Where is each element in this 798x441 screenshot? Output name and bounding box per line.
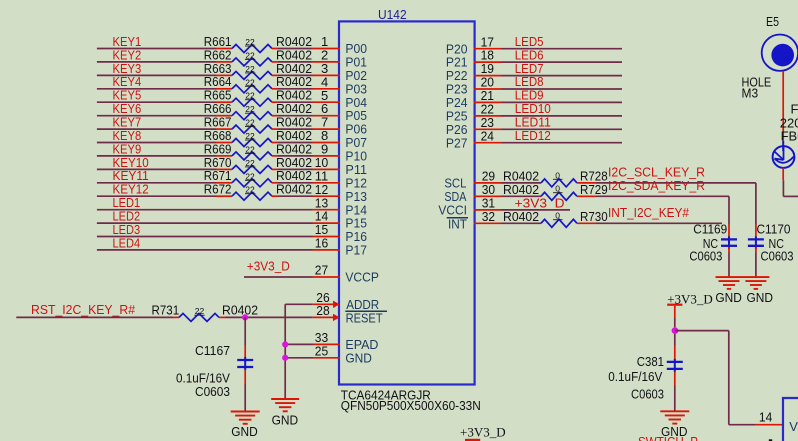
pin 15 (P16) (313, 222, 341, 237)
pin name P27 (446, 135, 468, 150)
pin name P17 (345, 243, 367, 258)
svg-text:22: 22 (245, 50, 255, 60)
pin name INT with overline (447, 216, 468, 231)
wire net KEY1 (97, 34, 216, 49)
wire +3V3_D to pin 14 (675, 331, 783, 425)
pin name P23 (446, 82, 468, 97)
svg-text:VCCI: VCCI (438, 203, 467, 218)
ground symbol (C1169) (715, 277, 742, 305)
svg-text:R672: R672 (204, 182, 232, 197)
resistor R730 0 R0402 (501, 209, 608, 227)
pin name P03 (345, 81, 367, 96)
resistor R669 22 R0402 (204, 141, 312, 160)
svg-text:0: 0 (555, 170, 560, 180)
svg-text:R731: R731 (152, 302, 180, 317)
wire net KEY11 (97, 168, 216, 183)
pin 6 (P05) (313, 101, 341, 116)
svg-text:P17: P17 (345, 243, 367, 258)
power port +3V3_D (bottom) (460, 425, 506, 441)
IC footprint QFN50P500X500X60-33N (341, 398, 481, 413)
junction at +3V3_D branch (672, 327, 679, 334)
svg-text:22: 22 (195, 306, 205, 316)
svg-text:14: 14 (759, 409, 772, 424)
svg-text:C1170: C1170 (757, 222, 791, 237)
IC U142 body (TCA6424ARGJR) (339, 21, 475, 384)
wire R672 to pin 12 (278, 195, 313, 197)
svg-text:FB06: FB06 (781, 128, 798, 143)
svg-text:GND: GND (272, 412, 299, 427)
wire net LED3 (97, 222, 313, 237)
wire net LED2 (97, 209, 313, 224)
resistor R671 22 R0402 (204, 168, 312, 187)
pin name P13 (345, 189, 367, 204)
pin name P04 (345, 95, 367, 110)
svg-text:GND: GND (231, 424, 258, 439)
pin name P01 (345, 55, 367, 70)
pin name P06 (345, 122, 367, 137)
svg-text:C0603: C0603 (689, 248, 722, 263)
svg-text:U142: U142 (378, 7, 407, 22)
wire net LED6 (501, 47, 622, 62)
pin name P02 (345, 68, 367, 83)
svg-text:SWTICH_P: SWTICH_P (638, 434, 698, 441)
svg-text:QFN50P500X500X60-33N: QFN50P500X500X60-33N (341, 398, 481, 413)
pin number sliver (clipped) (769, 439, 772, 441)
svg-text:22: 22 (245, 144, 255, 154)
wire net LED7 (501, 61, 622, 76)
svg-text:R0402: R0402 (276, 182, 312, 197)
junction at EPAD wire (282, 341, 288, 347)
wire R670 to pin 10 (278, 168, 313, 170)
svg-text:INT: INT (448, 216, 467, 231)
svg-text:VCCP: VCCP (345, 270, 379, 285)
wire net LED5 (501, 34, 622, 49)
pin 25 (GND) (313, 343, 340, 358)
pin 12 (P13) (313, 182, 341, 197)
resistor R672 22 R0402 (204, 182, 312, 201)
pin 30 (SDA) (474, 182, 501, 197)
svg-text:C381: C381 (637, 354, 664, 369)
wire net KEY6 (97, 101, 216, 116)
net label SWTICH_P (clipped) (638, 434, 698, 441)
wire net INT_I2C_KEY# (596, 205, 722, 223)
mounting hole E5 HOLE M3 (742, 14, 798, 101)
svg-text:E5: E5 (766, 14, 779, 29)
pin 5 (P04) (313, 88, 341, 103)
wire net LED10 (501, 101, 622, 116)
pin name VCCI (438, 203, 467, 218)
pin name P10 (345, 149, 367, 164)
ground symbol (ADDR/EPAD/GND bus) (271, 399, 299, 427)
IC value TCA6424ARGJR (341, 387, 431, 402)
ground symbol (C1170) (742, 277, 773, 305)
wire net +3V3_D (pin 27) (244, 258, 313, 277)
capacitor C1170 NC C0603 (748, 222, 794, 278)
pin 29 (SCL) (474, 169, 501, 184)
svg-text:C1169: C1169 (693, 222, 727, 237)
resistor R662 22 R0402 (204, 47, 312, 66)
pin 17 (P20) (474, 34, 501, 49)
svg-text:VC: VC (789, 419, 798, 434)
wire R664 to pin 4 (278, 88, 313, 90)
wire net KEY7 (97, 115, 216, 130)
pin 31 (VCCI) (474, 196, 501, 211)
pin 9 (P10) (313, 142, 341, 157)
pin 11 (P12) (313, 168, 341, 183)
pin 14 (P15) (313, 209, 341, 224)
wire R661 to pin 1 (278, 48, 313, 50)
wire net KEY5 (97, 88, 216, 103)
pin name P00 (345, 41, 367, 56)
pin 14 (right IC) (759, 409, 772, 424)
pin 32 (INT) (474, 209, 501, 224)
pin name P11 (345, 162, 367, 177)
pin 19 (P22) (474, 61, 501, 76)
pin 18 (P21) (474, 48, 501, 63)
pin name SDA (444, 189, 466, 204)
pin name P26 (446, 122, 468, 137)
wire net +3V3_D (pin 31) (501, 196, 570, 211)
svg-text:FB36: FB36 (791, 102, 798, 117)
pin name P21 (446, 55, 468, 70)
pin 13 (P14) (313, 195, 341, 210)
svg-text:0: 0 (555, 211, 560, 221)
svg-text:GND: GND (715, 290, 742, 305)
svg-text:R730: R730 (580, 209, 608, 224)
svg-text:GND: GND (345, 350, 372, 365)
wire net LED11 (501, 115, 622, 130)
resistor R729 0 R0402 (501, 182, 608, 200)
pin 28 (RESET) (313, 303, 340, 321)
wire net KEY4 (97, 74, 216, 89)
resistor R731 22 R0402 (152, 302, 259, 321)
pin 22 (P25) (474, 102, 501, 117)
svg-text:RESET: RESET (346, 310, 383, 325)
pin name P24 (446, 95, 468, 110)
resistor R663 22 R0402 (204, 61, 312, 80)
wire R663 to pin 3 (278, 74, 313, 76)
pin name EPAD (345, 337, 378, 352)
wire net KEY10 (97, 155, 216, 170)
junction at R731 / C1167 (242, 314, 248, 320)
svg-text:32: 32 (482, 209, 495, 224)
svg-text:22: 22 (245, 171, 255, 181)
wire R668 to pin 8 (278, 142, 313, 144)
capacitor C1169 NC C0603 (689, 222, 737, 278)
svg-text:P27: P27 (446, 135, 468, 150)
wire net LED4 (97, 235, 313, 250)
svg-text:RST_I2C_KEY_R#: RST_I2C_KEY_R# (31, 302, 136, 317)
resistor R664 22 R0402 (204, 74, 312, 93)
resistor R668 22 R0402 (204, 128, 312, 147)
wire net LED12 (501, 128, 622, 143)
svg-text:22: 22 (245, 185, 255, 195)
wire net RST_I2C_KEY_R# (16, 302, 173, 317)
svg-text:M3: M3 (742, 86, 759, 101)
svg-text:22: 22 (245, 77, 255, 87)
resistor R667 22 R0402 (204, 115, 312, 134)
svg-text:0.1uF/16V: 0.1uF/16V (608, 369, 662, 384)
wire net KEY2 (97, 47, 216, 62)
svg-text:R729: R729 (580, 182, 608, 197)
pin name SCL (444, 176, 466, 191)
pin 2 (P01) (313, 48, 341, 63)
resistor R666 22 R0402 (204, 101, 312, 120)
svg-text:INT_I2C_KEY#: INT_I2C_KEY# (608, 205, 690, 220)
resistor R670 22 R0402 (204, 155, 312, 174)
pin name P15 (345, 216, 367, 231)
svg-text:GND: GND (747, 290, 774, 305)
wire R669 to pin 9 (278, 155, 313, 157)
pin 20 (P23) (474, 75, 501, 90)
junction at GND pin wire (282, 355, 288, 361)
wire R731 to pin 28 (225, 316, 313, 318)
pin name VCCP (345, 270, 379, 285)
svg-text:28: 28 (316, 303, 329, 318)
svg-text:+3V3_D: +3V3_D (247, 258, 290, 273)
ferrite bead FB (designator/value/footprint clipped) (773, 102, 798, 168)
power port +3V3_D (667, 291, 713, 327)
svg-text:LED4: LED4 (113, 235, 141, 250)
pin 8 (P07) (313, 128, 341, 143)
pin 4 (P03) (313, 74, 341, 89)
svg-text:22: 22 (245, 104, 255, 114)
svg-text:16: 16 (315, 236, 328, 251)
pin name ADDR (346, 297, 379, 312)
wire net KEY8 (97, 128, 216, 143)
svg-text:25: 25 (315, 343, 328, 358)
svg-text:0: 0 (555, 184, 560, 194)
pin 16 (P17) (313, 236, 341, 251)
pin name RESET with overline (345, 310, 387, 325)
pin name VC (clipped) (789, 419, 798, 434)
svg-text:C0603: C0603 (631, 386, 664, 401)
wire ferrite down and right (clipped) (783, 168, 798, 197)
pin 24 (P27) (474, 128, 501, 143)
IC fragment right edge body (783, 398, 798, 441)
pin 1 (P00) (313, 34, 341, 49)
svg-text:C0603: C0603 (195, 384, 230, 399)
wire R671 to pin 11 (278, 182, 313, 184)
pin 3 (P02) (313, 61, 341, 76)
pin name P22 (446, 68, 468, 83)
wire net KEY9 (97, 141, 216, 156)
svg-text:27: 27 (315, 263, 328, 278)
resistor R728 0 R0402 (501, 169, 608, 187)
resistor R665 22 R0402 (204, 88, 312, 107)
svg-text:22: 22 (245, 91, 255, 101)
ground symbol (C381) (660, 411, 689, 439)
svg-text:22: 22 (245, 37, 255, 47)
svg-text:C1167: C1167 (195, 343, 230, 358)
pin name P14 (345, 202, 367, 217)
svg-text:22: 22 (245, 64, 255, 74)
pin 7 (P06) (313, 115, 341, 130)
wire R666 to pin 6 (278, 115, 313, 117)
svg-text:LED12: LED12 (515, 128, 551, 143)
wire net LED9 (501, 88, 622, 103)
ground symbol (C1167) (231, 412, 260, 440)
wire net KEY3 (97, 61, 216, 76)
wire ADDR-EPAD-GND vertical bus (285, 304, 313, 399)
pin name P12 (345, 175, 367, 190)
pin name P05 (345, 108, 367, 123)
wire net LED8 (501, 74, 622, 89)
svg-text:24: 24 (481, 128, 494, 143)
pin 26 (ADDR) (313, 290, 340, 308)
svg-text:+3V3_D: +3V3_D (460, 425, 506, 440)
pin name P16 (345, 229, 367, 244)
pin 27 (VCCP) (313, 263, 341, 278)
capacitor C381 0.1uF/16V C0603 (608, 334, 683, 412)
capacitor C1167 0.1uF/16V C0603 (176, 317, 253, 411)
pin name GND (345, 350, 372, 365)
wire R665 to pin 5 (278, 101, 313, 103)
wire net I2C_SCL_KEY_R (596, 165, 756, 225)
wire R667 to pin 7 (278, 128, 313, 130)
svg-text:I2C_SDA_KEY_R: I2C_SDA_KEY_R (608, 178, 705, 193)
svg-text:R0402: R0402 (503, 209, 539, 224)
pin 21 (P24) (474, 88, 501, 103)
svg-text:22: 22 (245, 131, 255, 141)
wire net KEY12 (97, 182, 216, 197)
pin name P07 (345, 135, 367, 150)
svg-text:22: 22 (245, 118, 255, 128)
pin 10 (P11) (313, 155, 341, 170)
pin name P25 (446, 109, 468, 124)
svg-text:22: 22 (245, 158, 255, 168)
resistor R661 22 R0402 (204, 34, 312, 53)
svg-text:R0402: R0402 (222, 302, 258, 317)
wire net LED1 (97, 195, 313, 210)
wire hole to ferrite FB (782, 71, 784, 151)
pin name P20 (446, 41, 468, 56)
wire net I2C_SDA_KEY_R (596, 178, 729, 225)
pin 33 (EPAD) (313, 330, 340, 345)
wire R662 to pin 2 (278, 61, 313, 63)
pin 23 (P26) (474, 115, 501, 130)
IC designator U142 (378, 7, 407, 22)
svg-text:C0603: C0603 (761, 248, 794, 263)
